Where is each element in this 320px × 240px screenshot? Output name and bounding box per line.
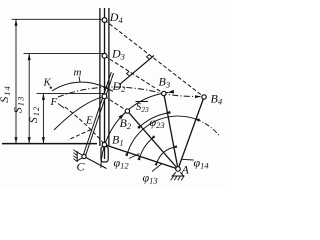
arc f from lower left to D2 (54, 96, 104, 130)
pivot A (176, 167, 181, 172)
coupler dashed D3-B3 (105, 56, 164, 94)
dimension line S14 (15, 19, 17, 143)
right angle mark on D4-B4 (147, 55, 150, 60)
double-bar link C-D2 (85, 73, 114, 157)
ground symbol at A (172, 172, 185, 176)
pin B4 (202, 95, 206, 99)
pin D3 (102, 53, 107, 58)
pin D2 (102, 94, 107, 99)
right angle mark on D3-B3 (126, 71, 129, 75)
S23 arc between B2 and B3 with arrows (124, 92, 169, 114)
arc m through K region (52, 82, 113, 91)
dimension line S12 (42, 93, 44, 143)
pin D4 (102, 18, 107, 23)
angle arc phi12 (140, 139, 152, 157)
coupler dashed D2-B2 (104, 96, 127, 111)
dashed line through E to B1 (65, 107, 104, 144)
slider block at position 1 (101, 147, 108, 163)
pin B1 (102, 142, 106, 146)
baseline (ground reference line) (2, 143, 97, 145)
crank lines from A to B1..B4 (104, 145, 178, 169)
pin B2 (125, 109, 129, 113)
slider guide rail (three vertical lines) (99, 8, 101, 146)
svg-text:S14: S14 (0, 85, 12, 103)
extension line for S14 (12, 18, 105, 20)
leader phi14 (182, 158, 194, 161)
angle arc phi13 (157, 147, 174, 162)
long dash-dot arc through B3 to B4 (58, 87, 201, 97)
angle arc phi14 (128, 116, 196, 152)
extension line for S12 (37, 92, 105, 94)
dashed segment from E vertex down-left (68, 130, 91, 141)
leader m (79, 77, 80, 83)
perpendicular from D2 to dashed couplers (120, 56, 155, 85)
leader phi13 (152, 164, 162, 172)
K construction dot (50, 87, 52, 89)
svg-text:A: A (181, 163, 190, 177)
svg-text:K: K (43, 77, 52, 89)
crank circle arc through B1 below B2 (101, 111, 127, 168)
svg-text:F: F (50, 96, 58, 108)
ground symbol at C (77, 151, 82, 162)
coupler dashed D4-B4 (105, 20, 205, 97)
svg-text:E: E (85, 115, 93, 127)
line from C down-right (84, 157, 107, 169)
leader F (58, 104, 64, 109)
angle arc phi23 (141, 113, 168, 126)
leader phi12 (129, 154, 140, 159)
svg-text:C: C (77, 160, 86, 174)
svg-text:m: m (74, 67, 82, 79)
extension line for S13 (24, 53, 105, 55)
pivot C (82, 154, 86, 158)
dimension line S13 (28, 54, 30, 144)
pin B3 (162, 91, 166, 95)
